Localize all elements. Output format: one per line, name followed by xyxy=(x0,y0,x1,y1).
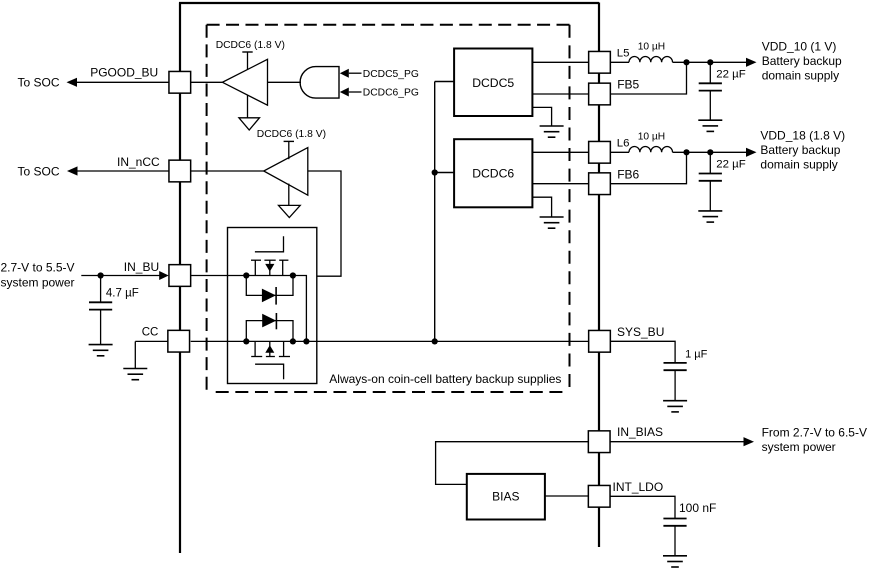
svg-text:VDD_10 (1 V): VDD_10 (1 V) xyxy=(762,39,837,53)
svg-text:IN_BIAS: IN_BIAS xyxy=(617,425,663,439)
svg-text:22 µF: 22 µF xyxy=(716,68,745,80)
svg-text:DCDC6: DCDC6 xyxy=(472,166,514,180)
svg-text:From 2.7-V to 6.5-V: From 2.7-V to 6.5-V xyxy=(762,426,867,440)
svg-text:FB6: FB6 xyxy=(617,168,639,182)
svg-text:To SOC: To SOC xyxy=(18,76,60,90)
svg-text:10 µH: 10 µH xyxy=(638,132,665,143)
svg-text:FB5: FB5 xyxy=(617,78,639,92)
svg-text:SYS_BU: SYS_BU xyxy=(617,325,664,339)
svg-text:22 µF: 22 µF xyxy=(716,158,745,170)
svg-text:IN_BU: IN_BU xyxy=(124,260,159,274)
svg-text:L5: L5 xyxy=(617,47,630,59)
svg-text:To SOC: To SOC xyxy=(18,165,60,179)
svg-text:DCDC6_PG: DCDC6_PG xyxy=(363,88,419,99)
svg-text:10 µH: 10 µH xyxy=(638,42,665,53)
svg-text:DCDC6 (1.8 V): DCDC6 (1.8 V) xyxy=(216,40,285,51)
svg-text:DCDC5: DCDC5 xyxy=(472,76,514,90)
svg-text:system power: system power xyxy=(762,440,836,454)
svg-text:Always-on coin-cell battery ba: Always-on coin-cell battery backup suppl… xyxy=(329,372,561,386)
svg-text:domain supply: domain supply xyxy=(762,68,839,82)
svg-text:1 µF: 1 µF xyxy=(685,349,708,361)
svg-text:CC: CC xyxy=(142,326,159,338)
svg-text:DCDC6 (1.8 V): DCDC6 (1.8 V) xyxy=(257,129,326,140)
svg-text:DCDC5_PG: DCDC5_PG xyxy=(363,69,419,80)
svg-text:4.7 µF: 4.7 µF xyxy=(106,288,139,300)
svg-text:IN_nCC: IN_nCC xyxy=(117,155,160,169)
svg-text:L6: L6 xyxy=(617,137,630,149)
svg-text:Battery backup: Battery backup xyxy=(762,54,842,68)
svg-text:BIAS: BIAS xyxy=(492,490,519,504)
svg-text:2.7-V to 5.5-V: 2.7-V to 5.5-V xyxy=(1,260,75,274)
svg-text:system power: system power xyxy=(1,275,75,289)
svg-text:VDD_18 (1.8 V): VDD_18 (1.8 V) xyxy=(760,129,845,143)
svg-text:domain supply: domain supply xyxy=(760,158,837,172)
svg-text:INT_LDO: INT_LDO xyxy=(613,480,664,494)
svg-text:Battery backup: Battery backup xyxy=(760,143,840,157)
svg-text:100 nF: 100 nF xyxy=(679,501,716,515)
svg-text:PGOOD_BU: PGOOD_BU xyxy=(90,65,158,79)
